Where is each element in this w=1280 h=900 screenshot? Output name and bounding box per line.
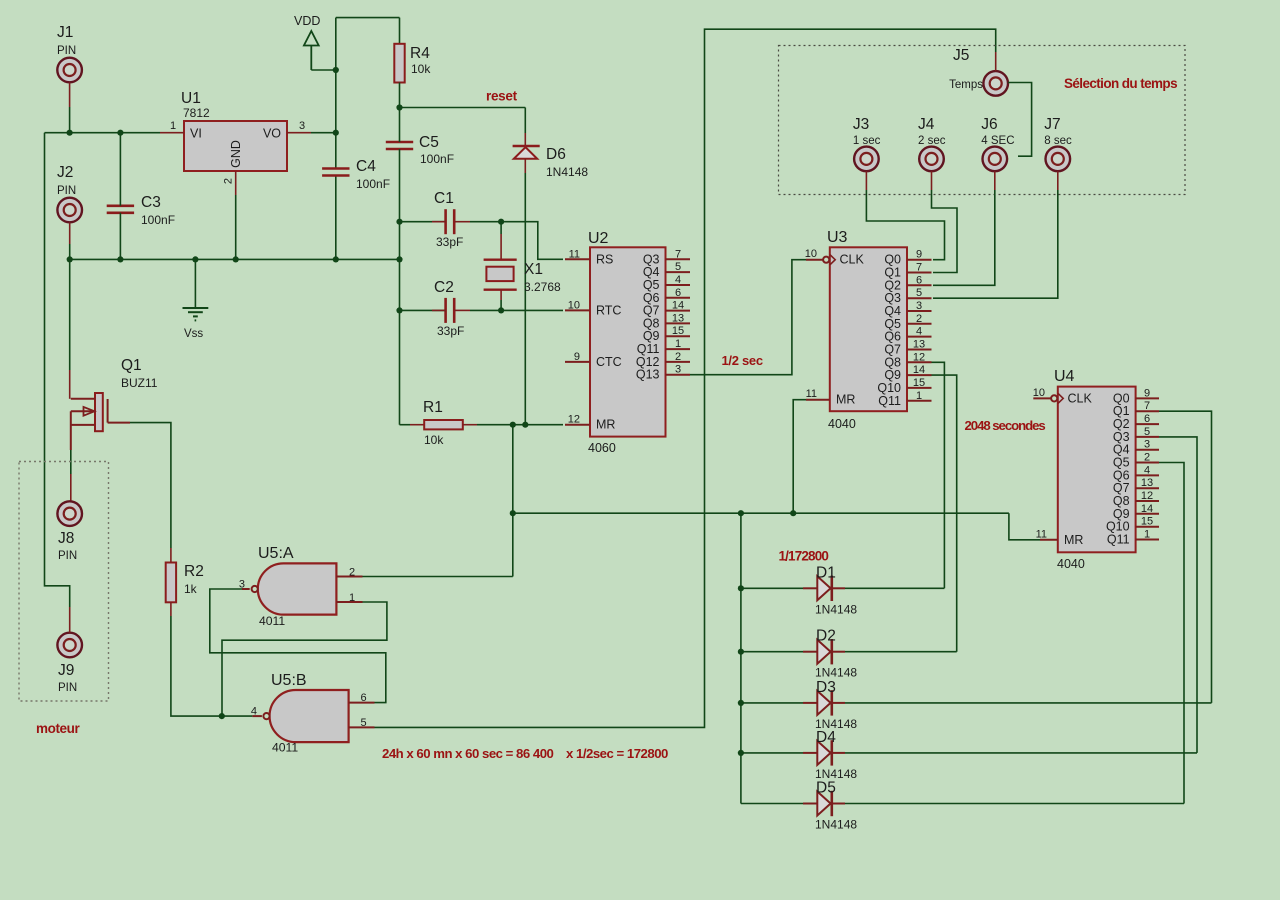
svg-text:33pF: 33pF [436, 235, 463, 249]
U4 pin 7 Q1 [1136, 410, 1159, 412]
U2 pin 6 Q6 [666, 297, 691, 299]
C2 right lead [454, 309, 470, 311]
svg-text:1N4148: 1N4148 [815, 818, 857, 832]
wire C5/C2 column x=399.5 [399, 259, 401, 424]
U2 pin 5 Q4 [666, 271, 691, 273]
wire C1 to U2.RS [501, 222, 563, 260]
U3 pin 5 Q3 [907, 297, 932, 299]
U1 pin 1 [160, 132, 184, 134]
svg-text:3: 3 [1144, 439, 1150, 451]
svg-text:6: 6 [1144, 413, 1150, 425]
svg-text:12: 12 [1141, 490, 1153, 502]
moteur dotted box [19, 462, 109, 702]
C5 bottom lead [399, 149, 401, 259]
R2 bottom lead [170, 602, 172, 616]
svg-text:9: 9 [574, 351, 580, 363]
svg-text:RTC: RTC [596, 303, 621, 317]
svg-text:D5: D5 [816, 780, 836, 797]
connector J3 [854, 147, 879, 172]
svg-text:13: 13 [672, 312, 684, 324]
R4 bottom lead [399, 83, 401, 108]
svg-text:11: 11 [1036, 529, 1047, 541]
svg-text:MR: MR [1064, 533, 1083, 547]
svg-text:1: 1 [349, 592, 355, 604]
svg-text:33pF: 33pF [437, 324, 464, 338]
U2 pin 1 Q11 [666, 348, 691, 350]
diode bus vertical [740, 513, 742, 803]
U2 pin 15 Q9 [666, 335, 691, 337]
wire left rail down to J9 [45, 133, 70, 607]
U2 pin 14 Q7 [666, 310, 691, 312]
svg-text:9: 9 [1144, 387, 1150, 399]
wire U4.Q3 to D4 [1159, 437, 1197, 753]
U2 pin 11 RS [565, 258, 590, 260]
U3 pin 10 CLK [806, 259, 823, 261]
wire Q1 gate to R2 [130, 423, 171, 548]
svg-text:Q6: Q6 [884, 330, 901, 344]
U3 pin 3 Q4 [907, 310, 932, 312]
svg-text:15: 15 [1141, 516, 1153, 528]
U3 pin 4 Q6 [907, 336, 932, 338]
U4 pin 4 Q6 [1136, 474, 1159, 476]
svg-text:14: 14 [672, 300, 684, 312]
junction diode bus [738, 510, 744, 516]
svg-text:Q5: Q5 [1113, 456, 1130, 470]
svg-text:Q2: Q2 [884, 278, 901, 292]
wire VDD to C4 column [311, 69, 336, 71]
svg-text:Sélection du temps: Sélection du temps [1064, 76, 1177, 91]
svg-text:4040: 4040 [1057, 557, 1085, 571]
wire J1 to input rail [69, 107, 71, 133]
junction J1/rail [67, 130, 73, 136]
U3 pin 6 Q2 [907, 284, 932, 286]
U4 pin 15 Q10 [1136, 526, 1159, 528]
svg-text:2: 2 [349, 567, 355, 579]
svg-text:MR: MR [596, 418, 615, 432]
svg-text:CLK: CLK [840, 253, 865, 267]
svg-text:7812: 7812 [183, 106, 210, 120]
svg-text:2: 2 [1144, 452, 1150, 464]
svg-text:3.2768: 3.2768 [524, 280, 561, 294]
main horizontal net y=513.2 [513, 512, 1009, 514]
wire U5:A pin3 to U5:B pin6 [210, 589, 386, 703]
capacitor C3 100nF [107, 205, 134, 208]
junction U1 pin2 [233, 256, 239, 262]
junction D3 [738, 700, 744, 706]
U3 pin 9 Q0 [907, 259, 932, 261]
U4 pin 6 Q2 [1136, 423, 1159, 425]
svg-text:1/172800: 1/172800 [779, 549, 829, 564]
Q1 drain pin lead [69, 370, 71, 399]
svg-text:5: 5 [675, 261, 681, 273]
svg-text:U2: U2 [588, 230, 609, 247]
resistor R1 10k [400, 424, 411, 426]
U3 pin 14 Q9 [907, 374, 932, 376]
D6 cathode lead down [524, 159, 526, 173]
wire top to R4 [336, 17, 400, 19]
svg-text:14: 14 [1141, 503, 1153, 515]
U2 pin 3 Q13 [666, 374, 691, 376]
svg-text:1k: 1k [184, 582, 198, 596]
svg-text:15: 15 [913, 377, 925, 389]
svg-text:J2: J2 [57, 164, 73, 181]
junction D4 [738, 750, 744, 756]
svg-text:10: 10 [805, 248, 817, 260]
svg-text:U5:B: U5:B [271, 672, 307, 689]
pin lead of J4 [931, 171, 933, 190]
U3 pin 13 Q7 [907, 349, 932, 351]
U4 pin 9 Q0 [1136, 397, 1159, 399]
U2 pin 12 MR [565, 424, 590, 426]
junction C3/rail [117, 130, 123, 136]
svg-text:4 SEC: 4 SEC [981, 135, 1014, 147]
svg-text:reset: reset [486, 89, 518, 104]
svg-text:J7: J7 [1044, 116, 1060, 133]
connector J6 [983, 147, 1008, 172]
svg-text:Q9: Q9 [1113, 507, 1130, 521]
svg-text:PIN: PIN [58, 550, 77, 562]
U4 pin 3 Q4 [1136, 449, 1159, 451]
U4 pin 10 CLK [1033, 397, 1051, 399]
svg-text:Q11: Q11 [1107, 533, 1130, 547]
junction MR/feedback [510, 422, 516, 428]
wire input rail y=132.7 [45, 132, 161, 134]
junction R4/C5/reset [396, 104, 402, 110]
U4 pin 2 Q5 [1136, 462, 1159, 464]
svg-text:14: 14 [913, 364, 925, 376]
diode D2 1N4148 [741, 651, 803, 653]
wire U5:B pin5 to J5 Temps (long) [375, 29, 996, 727]
connector J9 [57, 633, 82, 658]
svg-text:R2: R2 [184, 563, 204, 580]
pin lead of J3 [865, 171, 867, 190]
svg-text:5: 5 [1144, 426, 1150, 438]
svg-text:11: 11 [806, 388, 817, 400]
C3 top lead [119, 133, 121, 206]
svg-text:15: 15 [672, 325, 684, 337]
svg-text:Q4: Q4 [643, 265, 660, 279]
diode D5 1N4148 [741, 803, 803, 805]
svg-text:CTC: CTC [596, 355, 622, 369]
wire U3.MR down to main row [793, 400, 806, 514]
capacitor C2 33pF [444, 298, 447, 323]
svg-text:13: 13 [913, 339, 925, 351]
svg-text:J8: J8 [58, 530, 74, 547]
U4 pin 11 MR [1040, 539, 1058, 541]
U5:A pin 1 input [336, 601, 362, 603]
svg-text:U4: U4 [1054, 368, 1075, 385]
wire U1 pin3 to VDD node [311, 132, 336, 134]
junction U5B out [219, 713, 225, 719]
svg-text:Q1: Q1 [121, 357, 142, 374]
svg-text:1N4148: 1N4148 [815, 602, 857, 616]
selection dotted box [779, 46, 1186, 195]
wire C2 to U2.RTC [501, 309, 563, 311]
svg-text:3: 3 [916, 300, 922, 312]
U4 pin 1 Q11 [1136, 539, 1159, 541]
svg-text:Q10: Q10 [877, 381, 901, 395]
junction C3/ground rail [117, 256, 123, 262]
U4 pin 14 Q9 [1136, 513, 1159, 515]
C1 left lead [400, 221, 446, 223]
svg-text:Q1: Q1 [1113, 404, 1130, 418]
svg-text:U5:A: U5:A [258, 545, 294, 562]
U5:B pin 6 input [349, 702, 375, 704]
svg-text:X1: X1 [524, 261, 543, 278]
svg-text:CLK: CLK [1068, 391, 1093, 405]
svg-text:PIN: PIN [57, 185, 76, 197]
pin lead of J9 [69, 607, 71, 633]
svg-text:4011: 4011 [259, 614, 285, 628]
svg-text:C4: C4 [356, 158, 376, 175]
ground rail y=259.4 [70, 258, 400, 260]
svg-text:4060: 4060 [588, 441, 616, 455]
wire U5:A pin1 from U5:B pin4 [222, 602, 387, 716]
U3 pin 15 Q10 [907, 387, 932, 389]
svg-text:VDD: VDD [294, 14, 320, 28]
svg-text:2048 secondes: 2048 secondes [965, 418, 1046, 433]
connector J5 [983, 71, 1008, 96]
wire VDD column x=335.8 [335, 18, 337, 169]
svg-text:D6: D6 [546, 146, 566, 163]
svg-text:D1: D1 [816, 564, 836, 581]
junction D2 [738, 649, 744, 655]
junction C2/X1 [498, 307, 504, 313]
wire D6 to MR node [524, 173, 526, 425]
resistor R2 1k [170, 548, 172, 563]
wire J2 column down to Q1 drain [69, 259, 71, 370]
U3 pin 12 Q8 [907, 361, 932, 363]
IC U3 4040 [830, 247, 907, 411]
U2 pin 2 Q12 [666, 361, 691, 363]
svg-text:3: 3 [675, 364, 681, 376]
svg-text:1/2 sec: 1/2 sec [722, 353, 763, 368]
svg-text:4: 4 [916, 326, 922, 338]
connector J7 [1046, 147, 1071, 172]
pin lead of J2 [69, 222, 71, 244]
regulator U1 7812 [184, 121, 287, 171]
diode D6 1N4148 [524, 108, 526, 134]
U2 pin 13 Q8 [666, 322, 691, 324]
svg-text:8 sec: 8 sec [1044, 135, 1072, 147]
svg-text:7: 7 [916, 262, 922, 274]
junction J2/ground rail [67, 256, 73, 262]
svg-text:Q11: Q11 [878, 394, 901, 408]
svg-text:12: 12 [568, 414, 580, 426]
svg-text:3: 3 [299, 120, 305, 132]
svg-text:U1: U1 [181, 90, 201, 107]
U4 pin 13 Q7 [1136, 487, 1159, 489]
wire U5:B pin4 to node [222, 715, 253, 717]
U1 pin 2 (GND) [235, 171, 237, 195]
svg-text:11: 11 [569, 248, 580, 260]
junction GND symbol [192, 256, 198, 262]
connector J2 [57, 198, 82, 223]
svg-text:4011: 4011 [272, 741, 298, 755]
svg-text:GND: GND [229, 140, 243, 168]
U5:B pin 5 input [349, 726, 375, 728]
svg-text:10k: 10k [411, 62, 431, 76]
svg-text:7: 7 [1144, 400, 1150, 412]
svg-text:Q9: Q9 [643, 329, 660, 343]
svg-text:Vss: Vss [184, 328, 203, 340]
svg-text:C1: C1 [434, 190, 454, 207]
svg-text:12: 12 [913, 351, 925, 363]
Q1 gate bar [107, 399, 109, 423]
svg-text:6: 6 [360, 692, 366, 704]
connector J4 [919, 147, 944, 172]
gate U5:B 4011 [270, 690, 349, 742]
svg-text:Temps: Temps [949, 79, 983, 91]
svg-text:D2: D2 [816, 628, 836, 645]
svg-text:1N4148: 1N4148 [546, 165, 588, 179]
wire J4 to U3.Q1 [932, 190, 958, 273]
diode D3 1N4148 [741, 702, 803, 704]
wire feedback column x=512.8 [512, 425, 514, 577]
wire U2.Q13 1/2 sec to U3.CLK [690, 260, 806, 375]
svg-text:J5: J5 [953, 47, 969, 64]
power symbol VDD [304, 31, 319, 46]
svg-text:2: 2 [916, 313, 922, 325]
U4 pin 5 Q3 [1136, 436, 1159, 438]
IC U4 4040 [1058, 387, 1136, 553]
wire Q1 source to J8 [70, 450, 72, 474]
svg-text:2 sec: 2 sec [918, 135, 946, 147]
svg-text:1: 1 [1144, 529, 1150, 541]
wire J7 to U3.Q3 [933, 190, 1058, 298]
wire R2 to U5:B output node [171, 616, 222, 716]
svg-text:1 sec: 1 sec [853, 135, 881, 147]
U5:A pin 3 output [242, 588, 250, 590]
junction C1 row [396, 219, 402, 225]
pin lead of J7 [1057, 171, 1059, 190]
C2 left lead [400, 309, 446, 311]
svg-text:J1: J1 [57, 24, 73, 41]
junction U3.MR column [790, 510, 796, 516]
junction C2 row [396, 307, 402, 313]
svg-text:D3: D3 [816, 679, 836, 696]
U4 pin 12 Q8 [1136, 500, 1159, 502]
capacitor C5 100nF [386, 141, 413, 144]
pin lead of J6 [994, 171, 996, 190]
wire U4.Q5 to D5 [1159, 463, 1184, 804]
svg-text:VI: VI [190, 127, 202, 141]
wire U1 pin2 down to ground rail [235, 195, 237, 259]
U3 pin 11 MR [806, 399, 830, 401]
svg-text:100nF: 100nF [141, 213, 175, 227]
wire to U4.MR [1009, 513, 1040, 540]
U5:A pin 2 input [336, 576, 362, 578]
wire J2 to ground rail [69, 244, 71, 259]
svg-text:5: 5 [360, 717, 366, 729]
svg-text:6: 6 [675, 287, 681, 299]
svg-text:2: 2 [223, 178, 235, 184]
C3 bottom lead [119, 213, 121, 260]
svg-text:C2: C2 [434, 279, 454, 296]
wire J3 to U3.Q0 [866, 190, 944, 260]
svg-text:1: 1 [916, 390, 922, 402]
U1 pin 3 [287, 132, 311, 134]
svg-text:10: 10 [1033, 387, 1045, 399]
connector J1 [57, 58, 82, 83]
svg-text:C3: C3 [141, 194, 161, 211]
svg-text:MR: MR [836, 393, 855, 407]
junction main row [510, 510, 516, 516]
junction C5-C2 column [396, 256, 402, 262]
net reset wire [400, 107, 526, 109]
wire U4.Q1 to D3 [1159, 411, 1212, 703]
wire U3.Q8 to D1 [932, 362, 945, 588]
svg-text:9: 9 [916, 249, 922, 261]
U2 pin 4 Q5 [666, 284, 691, 286]
junction C4/ground rail [333, 256, 339, 262]
svg-text:R4: R4 [410, 45, 430, 62]
U3 pin 7 Q1 [907, 272, 932, 274]
svg-text:10: 10 [568, 299, 580, 311]
crystal X1 3.2768 [500, 222, 502, 234]
U2 pin 9 CTC [565, 361, 590, 363]
wire U5:A pin2 up to MR node [363, 576, 513, 578]
junction C1/X1 [498, 219, 504, 225]
C5 top lead [399, 108, 401, 143]
svg-text:24h x 60 mn x 60 sec = 86 400: 24h x 60 mn x 60 sec = 86 400 x 1/2sec =… [382, 746, 668, 761]
svg-text:PIN: PIN [58, 682, 77, 694]
svg-text:4: 4 [1144, 464, 1150, 476]
svg-text:J9: J9 [58, 662, 74, 679]
svg-text:R1: R1 [423, 399, 443, 416]
U2 pin 10 RTC [565, 309, 590, 311]
wire bracket J5-J6 [1008, 83, 1032, 157]
svg-text:100nF: 100nF [356, 177, 390, 191]
svg-text:U3: U3 [827, 229, 848, 246]
svg-text:4040: 4040 [828, 417, 856, 431]
capacitor C4 100nF [322, 167, 349, 170]
svg-text:C5: C5 [419, 134, 439, 151]
C1 right lead [454, 221, 470, 223]
junction VDD [333, 67, 339, 73]
U3 pin 2 Q5 [907, 323, 932, 325]
svg-text:J6: J6 [981, 116, 997, 133]
IC U2 4060 [590, 247, 666, 436]
svg-text:J4: J4 [918, 116, 935, 133]
connector J8 [57, 501, 82, 526]
junction MR/D6 [522, 422, 528, 428]
gate U5:A 4011 [258, 563, 337, 614]
diode D4 1N4148 [741, 752, 803, 754]
svg-text:2: 2 [675, 351, 681, 363]
U2 pin 7 Q3 [666, 258, 691, 260]
pin lead of J5 [995, 52, 997, 71]
pin lead of J1 [69, 82, 71, 107]
U5:B pin 4 output [252, 715, 262, 717]
svg-text:4: 4 [675, 274, 681, 286]
R4 top lead [399, 18, 401, 44]
svg-text:moteur: moteur [36, 721, 81, 736]
svg-text:5: 5 [916, 287, 922, 299]
junction D1 [738, 585, 744, 591]
svg-text:10k: 10k [424, 433, 444, 447]
svg-text:1: 1 [675, 338, 681, 350]
wire U3.Q9 to D2 [932, 375, 957, 652]
svg-text:BUZ11: BUZ11 [121, 376, 158, 390]
svg-text:1N4148: 1N4148 [815, 666, 857, 680]
svg-text:7: 7 [675, 248, 681, 260]
svg-text:J3: J3 [853, 116, 869, 133]
wire J6 to U3.Q2 [933, 190, 995, 285]
Q1 gate lead right [108, 422, 130, 424]
ground symbol Vss [194, 259, 196, 308]
svg-text:VO: VO [263, 127, 281, 141]
